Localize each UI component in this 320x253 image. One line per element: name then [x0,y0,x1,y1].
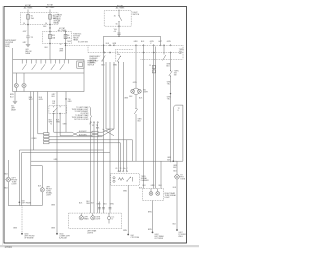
wire [49,136,103,138]
inline connectors rear harness [97,204,115,209]
switch blade [53,106,60,114]
ground G [127,234,139,239]
label [167,157,172,161]
connector [117,33,120,34]
wire [148,201,153,233]
wire [106,128,114,130]
svg-text:LIGHTS: LIGHTS [87,232,94,234]
svg-text:LIGHT: LIGHT [165,197,170,199]
wire [22,62,110,213]
emergency flasher lamp pair [129,45,148,108]
indicator lamp right [22,73,26,92]
svg-text:49: 49 [115,168,117,170]
branch to left front lamp 2 [31,166,43,188]
crossover X2 [96,127,114,135]
svg-text:LIGHT: LIGHT [46,195,51,197]
wire [30,92,32,206]
svg-text:REAR: REAR [84,217,89,220]
text block relay notes [73,34,81,42]
instrument cluster box [13,60,84,92]
hazard switch contact [102,45,106,61]
svg-text:LEFT FNDR: LEFT FNDR [21,203,31,205]
wire [51,92,57,234]
crossover X1 [54,131,92,137]
ground G100 [56,233,70,240]
junction [65,45,66,46]
svg-text:PANEL: PANEL [54,21,59,24]
terminal [65,43,66,44]
switch contacts [22,60,68,70]
text right rear lights [165,192,176,199]
wire [160,36,162,44]
switch contact [134,108,142,161]
flasher terminal labels [115,168,128,170]
left rear turn lamp [79,213,89,220]
wire BLK/GRN [56,114,61,136]
wire [173,179,177,230]
wire labels above [143,185,163,187]
right rear stop lamp [156,189,160,196]
svg-text:A-PILLAR: A-PILLAR [59,237,67,240]
svg-text:YEL: YEL [167,98,170,100]
svg-text:FLASHER: FLASHER [141,179,150,182]
ground G [152,232,165,241]
svg-text:30: 30 [114,16,116,18]
svg-text:WELL: WELL [178,236,183,238]
svg-text:SIDE): SIDE) [5,46,10,48]
text turn signal flasher [141,176,150,182]
svg-text:31: 31 [120,168,122,170]
svg-text:ALL TIMES: ALL TIMES [116,7,125,10]
svg-text:SW: SW [52,103,55,105]
wire [38,92,44,134]
wire GRY [23,25,28,37]
left rear stop lamp [91,213,101,220]
svg-text:CTR PLNM: CTR PLNM [130,237,139,239]
text left front lamp [12,177,18,185]
text block instrument panel [5,40,16,48]
wire [117,56,121,171]
label above [52,101,56,105]
svg-text:T10/5: T10/5 [67,41,71,43]
wire [167,76,172,162]
long wire pair [149,45,155,188]
wire [23,38,28,44]
junction [173,160,175,162]
label [134,41,172,43]
wire [49,25,51,32]
svg-text:49a: 49a [117,54,120,56]
svg-text:56: 56 [116,24,118,26]
svg-text:4.0: 4.0 [114,31,116,33]
wire [113,62,118,129]
fuse panel box [21,13,59,25]
svg-text:OF ENGINE: OF ENGINE [24,238,34,240]
wire [123,185,128,234]
right rear turn lamp [149,189,153,196]
svg-text:17004: 17004 [5,245,13,249]
connector block [150,43,156,73]
page shadow [0,245,199,247]
cluster ground wire [10,92,15,101]
fuse S5 [49,15,57,25]
fuse S4 [64,32,71,44]
svg-text:TURN: TURN [180,178,185,180]
cluster divider [13,72,84,74]
wire BLK [5,160,9,177]
wire BLK [45,44,50,60]
wire [98,131,103,133]
svg-text:ALL TIMES: ALL TIMES [46,6,55,9]
svg-text:SWITCH: SWITCH [133,14,140,16]
terminals row2 [104,52,171,53]
terminal wires [86,122,91,213]
text right front lamp [180,174,185,180]
terminal [65,31,66,32]
svg-text:NOT IN CLUSTER: NOT IN CLUSTER [74,119,89,121]
light switch box [104,11,131,27]
branch loop [173,105,183,161]
terminal [49,31,50,32]
svg-text:WHT: WHT [59,50,63,52]
text block fuse notes [54,13,63,24]
svg-text:SW: SW [174,75,177,77]
wire [173,161,178,174]
turn signal flasher box [111,174,140,186]
text left front lamp 2 [46,187,52,197]
wire [63,92,73,133]
switch contact [163,45,166,61]
long crossover wire [31,159,174,161]
label HOT AT ALL TIMES (fuse S6) [24,4,33,9]
wire [123,62,128,171]
terminal circles on row [103,45,171,46]
junction [118,36,119,37]
inline connectors [92,125,98,137]
connector stack [31,124,52,144]
wire [160,161,162,188]
flasher terminals [118,140,128,172]
turn signal switch box [49,106,67,114]
indicator lamp left [14,73,18,92]
wire [12,48,14,60]
svg-text:YEL: YEL [167,84,170,86]
terminal 30 [23,23,28,25]
text emergency flasher switch [90,56,102,64]
wire [27,10,29,15]
svg-text:LIGHT: LIGHT [12,183,17,185]
dashed sides [88,45,183,59]
fog switch contact [166,53,179,77]
terminal [49,43,50,44]
wire [21,206,23,234]
ground G [11,101,17,111]
fuse S6 [27,15,35,25]
wire [29,92,34,151]
label HOT AT ALL TIMES [58,27,67,32]
svg-text:DASH: DASH [11,109,16,112]
splice [19,201,32,205]
svg-text:HOT: HOT [159,41,163,43]
left front turn signal lamp 2 [40,188,44,206]
ground G [176,229,186,238]
relay box [43,32,72,44]
braced destination labels [72,106,92,124]
dashed row 3 [141,58,184,60]
wire [19,150,103,206]
svg-text:S LIGHT SW: S LIGHT SW [78,41,88,43]
text below box [87,229,97,234]
svg-text:DASH: DASH [25,52,30,55]
svg-text:LIGHT: LIGHT [95,218,100,220]
junction [49,27,50,28]
ground G200 [21,233,34,240]
wire GRN/WHT [59,44,65,60]
terminal [118,26,119,27]
text right [179,49,184,55]
svg-text:SWITCH: SWITCH [88,64,95,66]
wire labels [106,43,117,45]
left front turn signal lamp [5,177,11,181]
wire [8,205,42,207]
svg-text:SW: SW [179,53,182,55]
fuse S13 [49,32,56,44]
wire [104,35,161,37]
text right of cluster [88,60,100,66]
wire [98,135,103,137]
wire [5,182,9,206]
svg-text:LT: LT [112,218,114,220]
wire [49,140,132,161]
relay sub-box [77,61,84,68]
svg-text:OF TRUNK: OF TRUNK [154,238,163,240]
left tail light box [69,213,122,229]
svg-text:BLK/GRN: BLK/GRN [79,134,87,136]
wire BLK/WHT [49,114,54,133]
terminal 30 [45,23,50,25]
svg-text:8: 8 [178,110,179,112]
wire [49,10,51,15]
dashed row 2 [88,52,183,54]
wire YEL [114,26,119,36]
wire [49,143,120,171]
ground G81 [25,44,32,55]
svg-text:30: 30 [23,23,25,25]
svg-text:49a: 49a [123,168,126,170]
svg-text:ALL TIMES: ALL TIMES [24,6,33,9]
connector T2f [26,36,33,39]
right tail light box [142,189,163,201]
svg-text:BLK/WHT: BLK/WHT [79,131,87,133]
long wire [139,45,144,189]
svg-text:T4: T4 [50,124,52,126]
bulb monitor [107,213,115,223]
svg-text:T4: T4 [92,125,94,127]
right front turn signal lamp [174,175,180,179]
switch assembly boundary [66,44,184,46]
wire [103,36,105,150]
switch [114,10,122,27]
svg-text:CONN: CONN [31,138,37,140]
svg-text:30: 30 [45,23,47,25]
text right light switch [133,12,140,16]
wire [101,62,106,129]
label HOT AT ALL TIMES [116,4,125,9]
label HOT AT ALL TIMES (fuse S5) [46,4,55,9]
svg-text:J2: J2 [60,44,62,46]
svg-text:15: 15 [149,65,151,67]
wire [46,92,48,133]
wire labels above [79,202,95,204]
dashed inner box [115,50,133,62]
